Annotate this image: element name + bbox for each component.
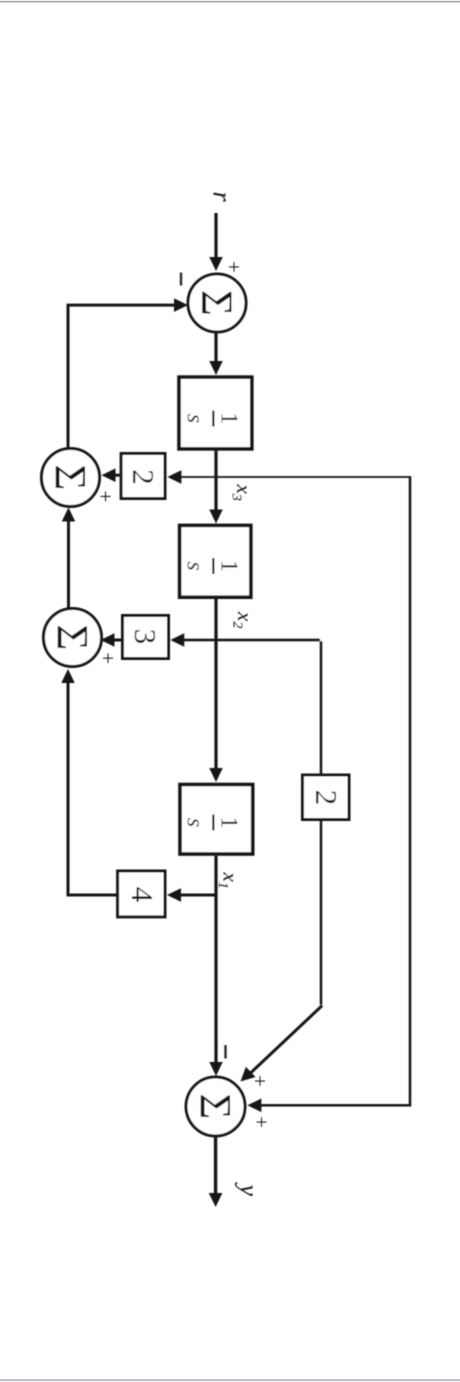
svg-text:y: y [235,1182,264,1197]
svg-text:4: 4 [125,887,160,903]
svg-text:2: 2 [309,790,344,806]
svg-text:2: 2 [126,469,161,485]
svg-text:1: 1 [216,560,242,572]
svg-text:+: + [248,1075,272,1087]
svg-text:s: s [182,561,208,570]
svg-text:+: + [222,261,246,273]
svg-text:Σ: Σ [192,290,242,316]
svg-text:+: + [250,1116,274,1128]
svg-text:+: + [94,490,118,502]
svg-text:r: r [208,192,237,203]
svg-text:1: 1 [216,413,242,425]
svg-text:+: + [96,652,120,664]
svg-text:s: s [182,414,208,423]
svg-text:Σ: Σ [46,465,96,491]
svg-text:Σ: Σ [48,625,98,651]
svg-text:1: 1 [216,817,242,829]
svg-text:3: 3 [128,629,163,645]
svg-text:s: s [182,818,208,827]
svg-text:Σ: Σ [191,1094,241,1120]
